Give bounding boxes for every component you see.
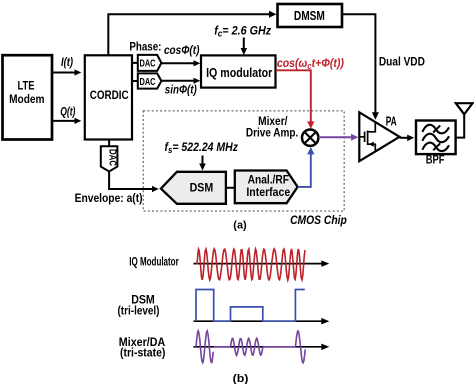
svg-text:CMOS Chip: CMOS Chip [290, 213, 347, 227]
svg-text:(tri-level): (tri-level) [118, 304, 160, 318]
svg-text:IQ Modulator: IQ Modulator [129, 255, 179, 269]
svg-text:Drive Amp.: Drive Amp. [246, 126, 298, 140]
svg-text:DAC: DAC [140, 59, 156, 70]
svg-text:Interface: Interface [246, 185, 290, 199]
svg-text:(a): (a) [233, 220, 247, 232]
svg-text:Q(t): Q(t) [60, 106, 75, 118]
svg-text:CORDIC: CORDIC [90, 88, 129, 102]
svg-text:Envelope: a(t): Envelope: a(t) [75, 191, 143, 205]
svg-text:sinΦ(t): sinΦ(t) [165, 84, 197, 97]
svg-text:DAC: DAC [140, 77, 156, 88]
svg-text:(tri-state): (tri-state) [120, 346, 165, 360]
svg-text:(b): (b) [233, 373, 249, 384]
svg-text:I(t): I(t) [61, 57, 73, 69]
svg-text:PA: PA [386, 114, 397, 128]
svg-text:BPF: BPF [426, 153, 445, 167]
svg-text:DAC: DAC [107, 149, 118, 166]
svg-text:DMSM: DMSM [294, 8, 325, 23]
svg-text:Modem: Modem [9, 92, 44, 106]
svg-text:cosΦ(t): cosΦ(t) [164, 44, 199, 57]
svg-text:LTE: LTE [18, 78, 35, 92]
svg-text:fs= 522.24 MHz: fs= 522.24 MHz [165, 140, 239, 155]
svg-text:Dual VDD: Dual VDD [379, 55, 425, 69]
svg-text:DSM: DSM [190, 181, 214, 195]
svg-text:fc= 2.6 GHz: fc= 2.6 GHz [214, 23, 272, 38]
svg-text:IQ modulator: IQ modulator [206, 65, 272, 80]
svg-text:Phase:: Phase: [129, 41, 161, 54]
